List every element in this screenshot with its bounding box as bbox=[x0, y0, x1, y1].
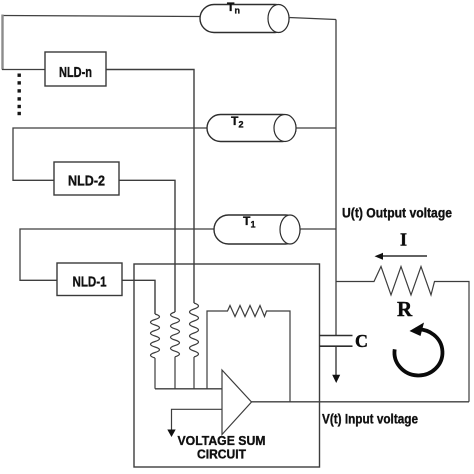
wire left rail vertical bbox=[1, 15, 3, 70]
wire NLD-1 output into voltage sum box to resistor 1 bbox=[122, 280, 155, 314]
wire NLD-2 output to summing resistor 2 bbox=[119, 180, 175, 312]
svg-text:U(t) Output voltage: U(t) Output voltage bbox=[342, 205, 452, 221]
resistor R1 (summing input 1) bbox=[151, 314, 160, 389]
svg-text:NLD-2: NLD-2 bbox=[68, 173, 105, 190]
arrow to voltage sum label bbox=[172, 409, 223, 430]
wire T2 output to right bus bbox=[296, 127, 336, 129]
current arrow I bbox=[380, 255, 427, 257]
wire left rail to NLD-n input bbox=[2, 69, 45, 71]
svg-text:1: 1 bbox=[251, 220, 256, 230]
circulation arrow (loop direction) bbox=[394, 329, 442, 375]
resistor R2 (summing input 2) bbox=[171, 312, 180, 389]
svg-text:R: R bbox=[397, 297, 413, 321]
delay line T1 bbox=[214, 214, 300, 244]
resistor R3 (summing input n) bbox=[190, 303, 199, 389]
wire right bus U(t) node bbox=[335, 20, 337, 336]
feedback resistor Rf with wire bbox=[207, 306, 290, 402]
delay line Tn bbox=[200, 0, 289, 33]
resistor R with wire loop bbox=[336, 267, 469, 402]
capacitor C bbox=[320, 336, 353, 347]
svg-text:I: I bbox=[400, 230, 407, 250]
wire T1 left loop down to NLD-1 input bbox=[20, 229, 214, 280]
svg-text:V(t) Input voltage: V(t) Input voltage bbox=[322, 411, 418, 427]
voltage sum circuit box bbox=[134, 264, 320, 467]
box NLD-n bbox=[45, 52, 106, 86]
svg-text:2: 2 bbox=[239, 120, 244, 130]
svg-text:n: n bbox=[235, 6, 241, 16]
svg-text:NLD-1: NLD-1 bbox=[73, 274, 107, 291]
wire Tn output to right bus bbox=[289, 18, 336, 20]
delay line T2 bbox=[207, 114, 296, 142]
box NLD-1 bbox=[57, 263, 122, 296]
wire NLD-n output to summing resistor 3 bbox=[106, 70, 194, 304]
box NLD-2 bbox=[54, 162, 119, 195]
svg-text:C: C bbox=[355, 331, 368, 351]
svg-text:NLD-n: NLD-n bbox=[59, 64, 92, 81]
wire top rail from left to Tn input bbox=[2, 16, 200, 17]
svg-text:CIRCUIT: CIRCUIT bbox=[197, 447, 246, 462]
wire T2 left loop down to NLD-2 input bbox=[13, 128, 207, 180]
op-amp U1 bbox=[222, 370, 252, 435]
wire op-amp output to right loop bbox=[252, 401, 470, 403]
wire T1 output to right bus bbox=[300, 228, 336, 230]
ellipsis dots (more NLD stages) bbox=[18, 74, 21, 116]
wire summing node line bbox=[155, 388, 222, 390]
arrow below C toward V(t) node bbox=[335, 346, 337, 376]
